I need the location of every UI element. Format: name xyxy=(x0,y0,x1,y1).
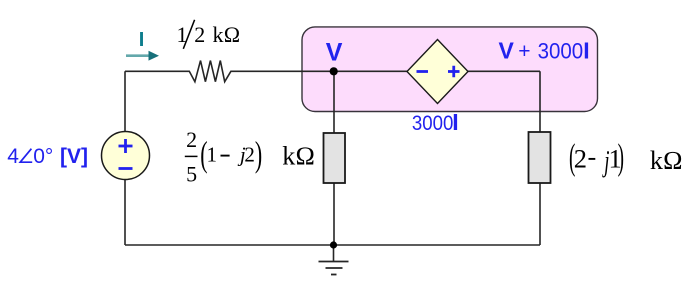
svg-text:3000: 3000 xyxy=(538,39,584,64)
svg-text:+: + xyxy=(518,40,530,63)
svg-text:[V]: [V] xyxy=(60,145,88,168)
svg-text:2: 2 xyxy=(186,127,197,152)
svg-text:kΩ: kΩ xyxy=(650,146,683,175)
svg-text:kΩ: kΩ xyxy=(282,142,315,171)
svg-text:): ) xyxy=(255,134,262,175)
svg-text:V: V xyxy=(326,39,343,67)
svg-text:I: I xyxy=(452,109,458,135)
svg-text:V: V xyxy=(499,38,515,64)
svg-text:1: 1 xyxy=(207,143,218,167)
svg-text:3000: 3000 xyxy=(412,111,454,135)
svg-text:2: 2 xyxy=(244,143,255,167)
svg-text:I: I xyxy=(583,38,589,64)
svg-text:2: 2 xyxy=(574,144,587,174)
svg-text:): ) xyxy=(618,138,624,178)
svg-text:4: 4 xyxy=(7,145,19,168)
svg-text:I: I xyxy=(139,29,145,51)
svg-text:kΩ: kΩ xyxy=(213,22,241,47)
svg-text:2: 2 xyxy=(194,22,205,47)
svg-text:5: 5 xyxy=(186,161,197,186)
svg-text:0°: 0° xyxy=(33,145,53,168)
